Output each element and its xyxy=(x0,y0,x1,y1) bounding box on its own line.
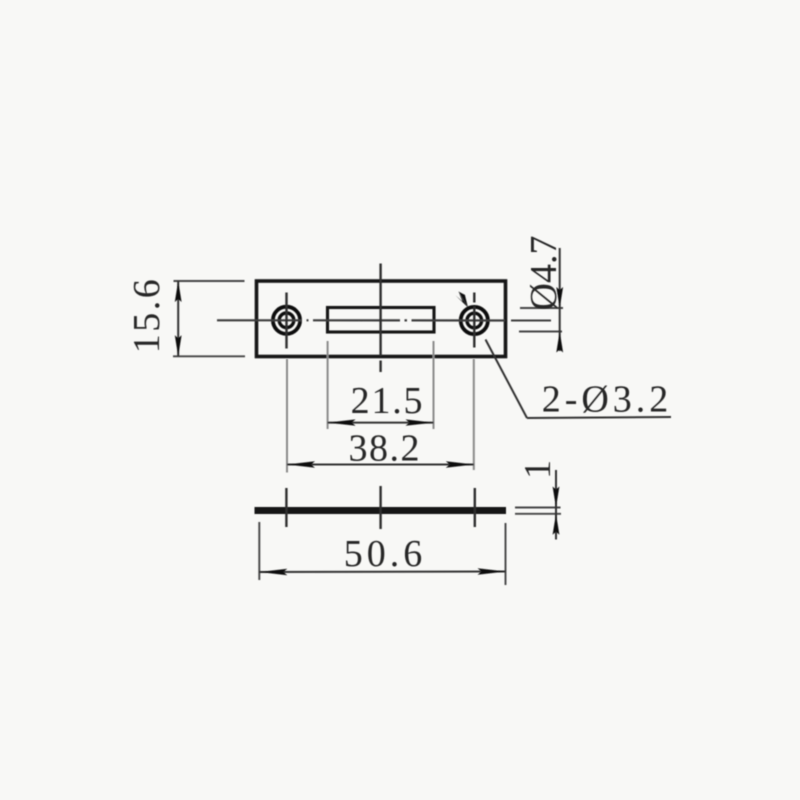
leader line horizontal xyxy=(527,417,671,418)
right screw hole outer circle xyxy=(461,307,488,334)
dimension text 50.6 xyxy=(344,533,427,575)
dimension diameter 4.7 extension line bottom xyxy=(519,331,562,333)
dimension 38.2 arrow left xyxy=(287,461,315,467)
vertical centerline left hole xyxy=(285,293,287,349)
dimension diameter 4.7 arrow up xyxy=(556,332,563,353)
leader line diagonal xyxy=(486,340,528,419)
latch slot xyxy=(328,308,435,333)
dimension 1 extension line bottom xyxy=(515,513,561,515)
dimension 15.6 extension line bottom xyxy=(173,355,245,357)
svg-text:50.6: 50.6 xyxy=(344,533,427,575)
dimension text 21.5 xyxy=(351,380,425,422)
dimension 50.6 extension line left xyxy=(258,522,260,580)
leader arrow at right hole xyxy=(455,292,468,308)
dimension 1 arrow down xyxy=(553,487,560,508)
dimension 15.6 arrow up xyxy=(175,281,182,302)
dimension 21.5 arrow left xyxy=(328,419,356,425)
svg-text:15.6: 15.6 xyxy=(126,277,168,354)
dimension 50.6 line xyxy=(259,571,505,574)
side view centerline left xyxy=(285,488,287,527)
svg-text:1: 1 xyxy=(517,460,559,479)
dimension 21.5 extension line right xyxy=(433,341,435,429)
left screw hole outer circle xyxy=(273,307,300,334)
dimension 50.6 extension line right xyxy=(505,523,507,585)
dimension 21.5 line xyxy=(328,422,434,424)
hole callout text 2-diameter 3.2 xyxy=(542,379,673,421)
dimension 15.6 extension line top xyxy=(174,280,245,282)
svg-text:21.5: 21.5 xyxy=(351,380,425,422)
dimension 38.2 extension line right xyxy=(473,359,475,470)
dimension diameter 4.7 arrow down xyxy=(556,287,563,308)
dimension text 15.6 xyxy=(126,277,168,354)
svg-text:38.2: 38.2 xyxy=(349,428,422,470)
dimension 15.6 line xyxy=(177,281,179,356)
dimension text 38.2 xyxy=(349,428,422,470)
side view centerline middle xyxy=(379,486,381,529)
svg-text:2-Ø3.2: 2-Ø3.2 xyxy=(542,379,673,421)
dimension diameter 4.7 extension line top xyxy=(520,307,563,309)
side view plate bar xyxy=(255,507,507,514)
dimension 21.5 extension line left xyxy=(327,341,329,429)
vertical centerline right hole xyxy=(473,293,475,348)
dimension text diameter 4.7 xyxy=(523,236,565,311)
dimension 38.2 line xyxy=(287,464,474,466)
dimension diameter 4.7 line xyxy=(559,248,561,351)
dimension 15.6 arrow down xyxy=(175,335,182,356)
side view centerline right xyxy=(474,488,476,527)
plate outline xyxy=(257,281,506,357)
vertical centerline middle xyxy=(379,264,381,373)
hole centerline extension right xyxy=(511,320,551,322)
right screw hole inner circle xyxy=(467,313,482,328)
dimension text 1 xyxy=(517,460,559,479)
dimension 1 extension line top xyxy=(515,507,561,509)
dimension 50.6 arrow left xyxy=(259,569,287,575)
dimension 1 line xyxy=(555,470,557,540)
horizontal centerline xyxy=(217,319,505,321)
svg-text:Ø4.7: Ø4.7 xyxy=(523,236,565,311)
left screw hole inner circle xyxy=(279,313,294,328)
dimension 50.6 arrow right xyxy=(478,568,506,574)
dimension 1 arrow up xyxy=(553,514,560,535)
dimension 38.2 extension line left xyxy=(286,359,288,473)
dimension 21.5 arrow right xyxy=(406,419,434,425)
dimension 38.2 arrow right xyxy=(446,461,474,467)
